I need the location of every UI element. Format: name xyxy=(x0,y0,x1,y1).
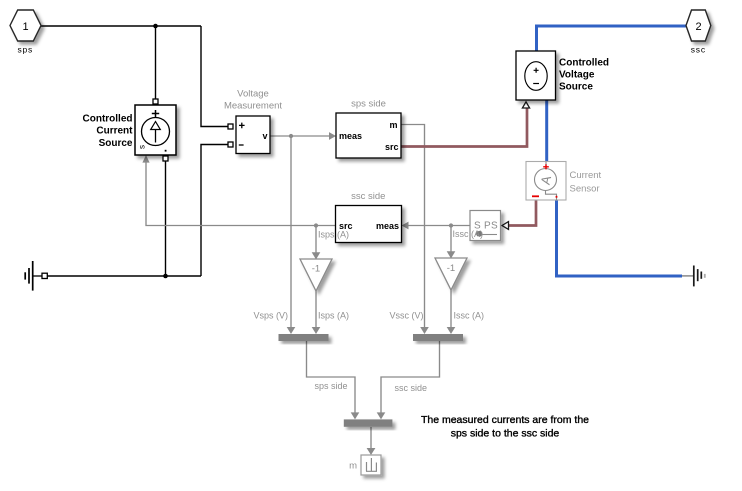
svg-text:Controlled: Controlled xyxy=(83,114,133,125)
svg-text:Isps (A): Isps (A) xyxy=(318,310,349,320)
svg-text:sps side: sps side xyxy=(315,381,348,391)
svg-text:v: v xyxy=(262,131,267,141)
svg-text:Voltage: Voltage xyxy=(559,70,595,81)
svg-text:ssc side: ssc side xyxy=(395,383,428,393)
svg-text:sps: sps xyxy=(17,45,33,55)
svg-text:ssc: ssc xyxy=(691,45,706,55)
svg-text:meas: meas xyxy=(376,221,399,231)
svg-text:Controlled: Controlled xyxy=(559,58,609,69)
svg-text:2: 2 xyxy=(695,21,701,33)
svg-text:meas: meas xyxy=(339,131,362,141)
svg-text:Source: Source xyxy=(559,81,593,92)
svg-text:Voltage: Voltage xyxy=(237,89,269,100)
svg-text:Current: Current xyxy=(96,126,133,137)
svg-text:m: m xyxy=(349,461,357,472)
svg-text:Measurement: Measurement xyxy=(224,100,282,111)
svg-text:Source: Source xyxy=(99,138,133,149)
svg-text:s: s xyxy=(138,145,147,149)
svg-text:Isps (A): Isps (A) xyxy=(318,229,349,239)
svg-text:-1: -1 xyxy=(312,264,320,275)
svg-text:m: m xyxy=(389,120,397,130)
svg-text:-1: -1 xyxy=(447,263,455,274)
svg-text:Issc (A): Issc (A) xyxy=(454,310,485,320)
svg-text:Vsps (V): Vsps (V) xyxy=(253,310,288,320)
svg-text:Sensor: Sensor xyxy=(570,184,600,195)
svg-text:1: 1 xyxy=(22,21,28,33)
svg-text:Vssc (V): Vssc (V) xyxy=(389,310,423,320)
svg-text:The measured currents are from: The measured currents are from the xyxy=(421,414,589,426)
svg-text:src: src xyxy=(385,142,399,152)
svg-text:Issc (A): Issc (A) xyxy=(453,229,484,239)
svg-text:ssc side: ssc side xyxy=(351,191,385,202)
svg-text:sps side: sps side xyxy=(351,99,386,110)
svg-text:sps side to the ssc side: sps side to the ssc side xyxy=(451,427,560,439)
svg-text:Current: Current xyxy=(570,170,602,181)
